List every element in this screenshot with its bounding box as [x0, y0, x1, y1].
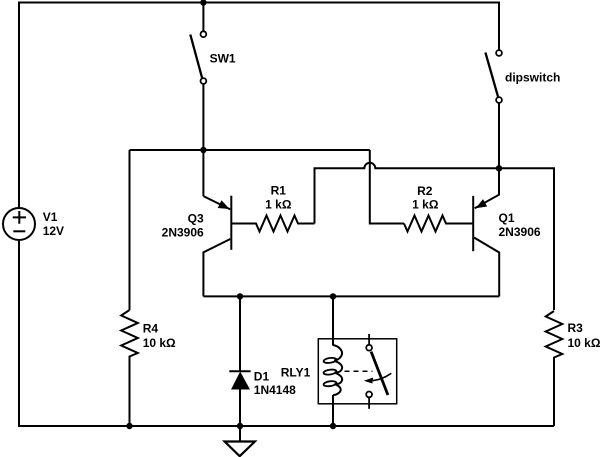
svg-text:R1: R1: [271, 184, 287, 198]
svg-text:2N3906: 2N3906: [499, 225, 541, 239]
svg-text:2N3906: 2N3906: [162, 225, 204, 239]
svg-text:R4: R4: [143, 321, 159, 335]
svg-text:Q3: Q3: [188, 211, 204, 225]
svg-text:10 kΩ: 10 kΩ: [568, 336, 600, 350]
svg-text:12V: 12V: [43, 224, 64, 238]
svg-text:dipswitch: dipswitch: [505, 70, 560, 84]
svg-text:R3: R3: [568, 321, 584, 335]
svg-text:Q1: Q1: [499, 211, 515, 225]
svg-text:R2: R2: [417, 184, 433, 198]
svg-text:10 kΩ: 10 kΩ: [143, 336, 176, 350]
svg-text:RLY1: RLY1: [281, 365, 311, 379]
svg-text:1 kΩ: 1 kΩ: [412, 197, 439, 211]
svg-text:1 kΩ: 1 kΩ: [265, 198, 292, 212]
svg-text:1N4148: 1N4148: [254, 383, 296, 397]
svg-text:D1: D1: [254, 369, 270, 383]
svg-text:V1: V1: [43, 210, 58, 224]
svg-text:SW1: SW1: [210, 51, 236, 65]
